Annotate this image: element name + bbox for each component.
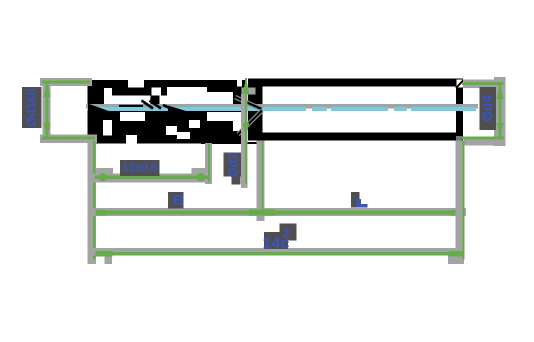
value label B — [168, 192, 184, 208]
threaded section (pixelated hatch) — [88, 80, 263, 145]
thread hatch white gaps — [128, 80, 144, 88]
arrow dots 12 — [98, 173, 106, 181]
centerline halo — [86, 104, 119, 109]
centerline — [87, 107, 476, 111]
arrowheads Od4 — [497, 84, 504, 99]
thread runout diagonals — [88, 101, 186, 113]
overall length dimension — [89, 141, 465, 265]
arrow blobs overall — [95, 251, 112, 257]
extension line halo right — [456, 141, 465, 265]
shared extension line — [261, 141, 263, 214]
svg-text:2: 2 — [283, 226, 290, 241]
chamfer line left lower — [238, 111, 262, 135]
shared extension line halo — [257, 141, 265, 222]
dimension line B/L — [96, 210, 464, 214]
extension lines Od1 — [42, 81, 90, 84]
dimension Od4 (right vertical) — [456, 77, 506, 146]
thread hatch base — [88, 80, 245, 142]
arrowheads Od2 — [243, 78, 249, 95]
svg-text:Ød2: Ød2 — [226, 152, 241, 177]
centerline dashes — [87, 107, 306, 111]
value label Od2 — [224, 152, 241, 176]
value label overall length — [264, 232, 288, 249]
shaft body — [248, 79, 463, 141]
dimension Od2 (middle vertical) — [224, 78, 256, 189]
extension line halos Od4 — [463, 80, 505, 89]
arrowheads Od1 — [44, 82, 51, 97]
dimension line overall — [95, 252, 464, 255]
svg-text:Ød4: Ød4 — [479, 95, 495, 122]
arrow blobs B/L — [96, 210, 107, 216]
value label Od4 — [480, 87, 497, 130]
extension lines Od4 — [462, 82, 504, 85]
svg-text:B: B — [173, 192, 184, 209]
extension line right — [462, 141, 464, 260]
dimension line 12 — [95, 176, 209, 179]
chamfer line left — [235, 97, 262, 109]
dimension line Od2 — [245, 78, 247, 184]
dimension line halo 12 — [92, 174, 212, 183]
dimension 12+-0,5 — [92, 143, 212, 184]
dimension line halo B/L — [89, 208, 466, 216]
chamfer line right — [456, 80, 463, 88]
extension line halos Od1 — [40, 78, 92, 86]
value label 12+-0,5 — [120, 160, 160, 176]
dimension line Od1 — [46, 83, 49, 137]
thread bottom edge — [95, 142, 126, 144]
value label L — [351, 192, 360, 208]
dimension line halo Od2 — [241, 87, 255, 94]
dimension line Od4 — [498, 83, 501, 138]
dimension Od1 (left vertical) — [22, 78, 97, 143]
dimension B and L (shared line) — [89, 141, 466, 222]
value label Od1 — [22, 87, 42, 128]
extension line bottom-left — [88, 140, 96, 264]
svg-text:12±0,5: 12±0,5 — [122, 163, 158, 175]
dimension line halo overall — [89, 248, 464, 256]
svg-text:Ød1k6: Ød1k6 — [25, 88, 39, 126]
